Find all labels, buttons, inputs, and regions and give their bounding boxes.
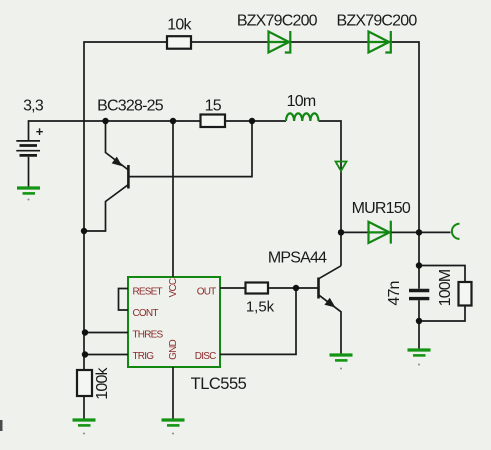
wire coil to switch node (319, 121, 342, 266)
wire GND pin down (172, 367, 174, 419)
node R15/base (249, 118, 255, 124)
svg-text:10k: 10k (167, 17, 192, 34)
wire anode MUR150 (341, 231, 369, 233)
wire top feedback rail (84, 42, 167, 370)
svg-text:CONT: CONT (133, 308, 159, 319)
svg-text:1,5k: 1,5k (246, 298, 275, 315)
wire Q1 base to node (128, 121, 252, 177)
battery V1 3,3 (16, 124, 43, 187)
ground battery (17, 188, 40, 201)
wire VCC to battery rail (172, 121, 174, 277)
ground Q2 emitter (330, 355, 353, 370)
transistor Q2 emitter wire (319, 295, 342, 354)
wire R3 to Q2 base (268, 287, 319, 289)
transistor Q1 emitter arrow (112, 157, 123, 167)
wire THRES (85, 332, 128, 334)
ground R1 (73, 420, 96, 435)
edge artifact (0, 420, 3, 431)
svg-text:+: + (36, 124, 44, 139)
svg-text:OUT: OUT (197, 286, 216, 297)
node feedback/collector (81, 228, 87, 234)
transistor Q1 collector wire (84, 185, 128, 232)
svg-text:100M: 100M (437, 269, 454, 306)
svg-text:TLC555: TLC555 (191, 375, 247, 393)
transistor Q2 MPSA44 base bar (317, 278, 320, 299)
zener diode D1 BZX79C200 (268, 31, 292, 53)
wire from 100M bottom (419, 306, 465, 322)
node junction dots (81, 118, 422, 358)
svg-text:BZX79C200: BZX79C200 (237, 13, 318, 30)
wire RESET-CONT jumper (119, 289, 129, 311)
IC U1 TLC555 box (128, 277, 220, 367)
wire OUT pin (220, 287, 246, 289)
wire between D1 and D2 (291, 41, 369, 43)
resistor R4 100M (459, 282, 472, 306)
resistor R3 1,5k (246, 283, 269, 294)
resistor 10k (167, 36, 191, 49)
node TRIG (82, 351, 88, 357)
svg-text:MUR150: MUR150 (352, 200, 411, 217)
wire to 100M top (419, 266, 465, 283)
svg-text:3,3: 3,3 (23, 98, 44, 115)
svg-text:THRES: THRES (133, 330, 164, 341)
resistor R2 15 (201, 115, 226, 128)
wire top between 10k and D1 (191, 41, 269, 43)
svg-text:47n: 47n (386, 281, 403, 305)
transistor Q1 BC328-25 emitter wire (106, 121, 129, 170)
wire after R15 to coil (225, 120, 286, 122)
svg-text:VCC: VCC (168, 278, 179, 297)
svg-text:GND: GND (168, 340, 179, 360)
arrow marker on switch node wire (336, 162, 347, 172)
svg-text:MPSA44: MPSA44 (268, 250, 327, 267)
diode D3 MUR150 (368, 221, 393, 244)
resistor R1 100k (77, 370, 92, 396)
ground IC (162, 420, 185, 435)
svg-text:RESET: RESET (133, 286, 163, 297)
wire cathode MUR150 (392, 231, 420, 233)
node battery/Q1 emitter (102, 118, 108, 124)
node VCC rail (170, 118, 176, 124)
svg-text:TRIG: TRIG (133, 351, 155, 362)
ground output (408, 350, 431, 366)
transistor Q1 base bar (127, 165, 130, 189)
wire output stub (419, 231, 451, 233)
svg-text:BC328-25: BC328-25 (97, 98, 164, 115)
wire TRIG (85, 354, 128, 356)
node output (416, 229, 422, 235)
node Q2 base (293, 285, 299, 291)
svg-text:15: 15 (205, 98, 222, 115)
inductor L1 10m (286, 113, 319, 121)
node THRES (82, 329, 88, 335)
svg-text:BZX79C200: BZX79C200 (337, 13, 418, 30)
capacitor C1 47n (409, 291, 429, 299)
wire battery rail (29, 121, 202, 140)
wire DISC to base node (220, 288, 296, 354)
node cap top (416, 262, 422, 268)
wire after D2 down right side (392, 42, 420, 289)
transistor Q2 collector wire (319, 266, 342, 279)
wire right side below capacitor (418, 300, 420, 348)
node cap bottom (416, 318, 422, 324)
connector output pin (452, 224, 460, 239)
svg-text:100k: 100k (94, 366, 111, 399)
node switch/diode anode (338, 229, 344, 235)
svg-text:10m: 10m (287, 93, 316, 110)
svg-text:DISC: DISC (195, 351, 216, 362)
zener diode D2 BZX79C200 (368, 31, 393, 53)
wire R1 to ground (83, 396, 85, 419)
transistor Q2 emitter arrow (324, 298, 335, 308)
